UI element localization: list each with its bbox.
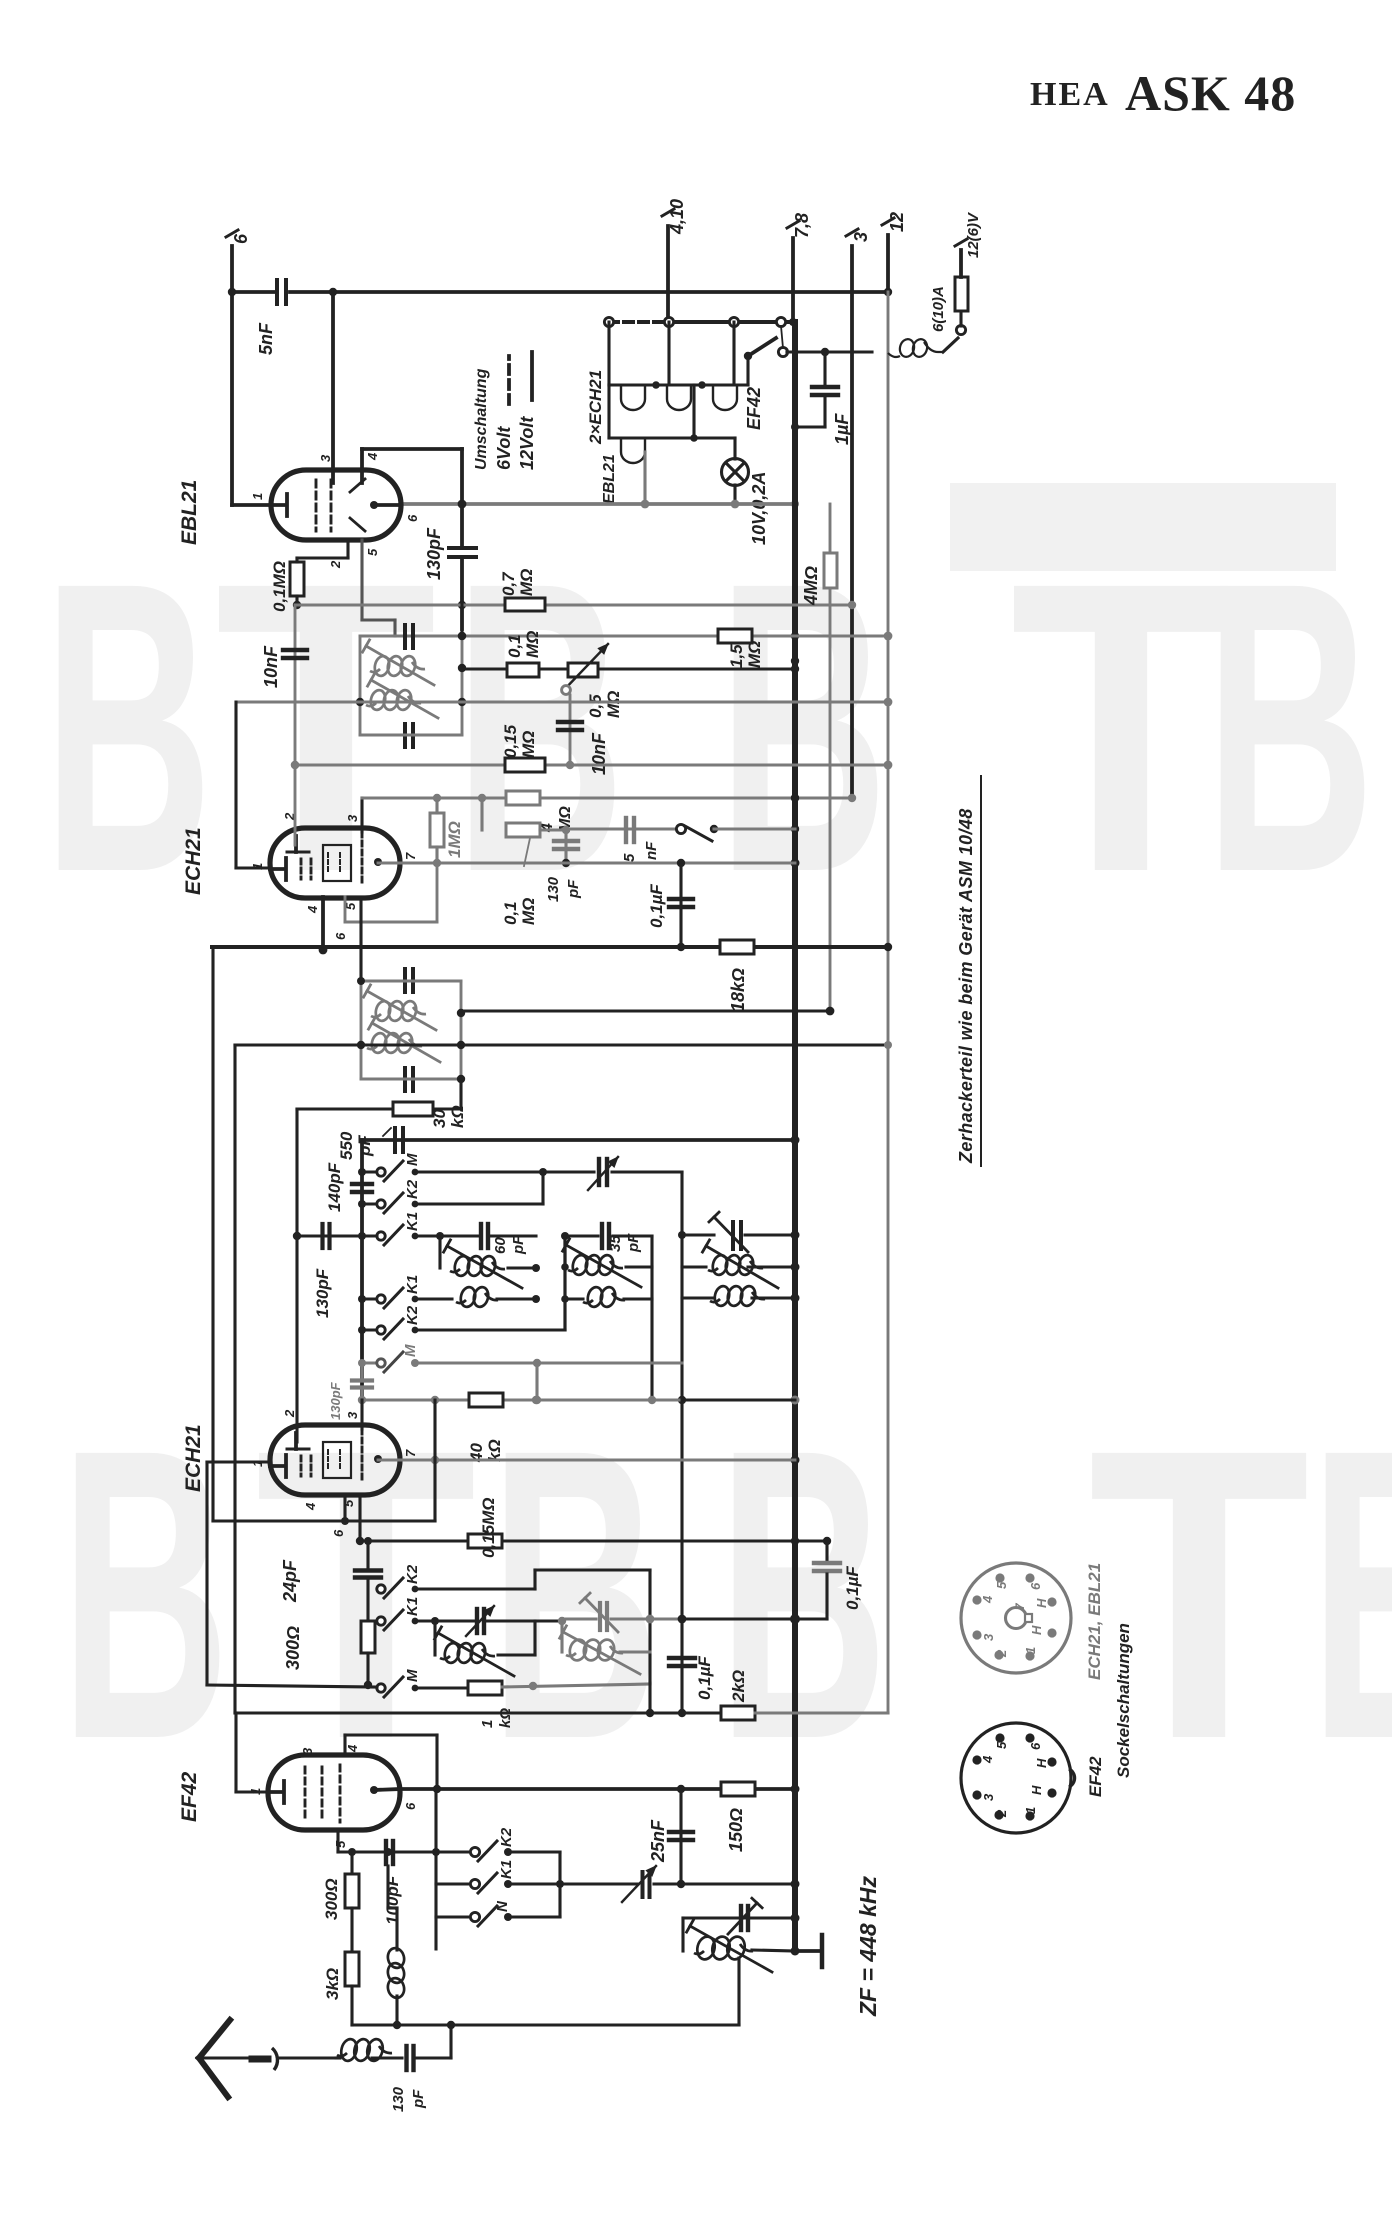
svg-text:B: B: [1310, 1365, 1392, 1826]
wire ECH21b pin1: [207, 1462, 270, 1685]
contact Nd: [436, 1900, 512, 1926]
svg-text:B: B: [718, 1365, 888, 1826]
svg-text:130: 130: [545, 876, 562, 902]
switch agc: [676, 824, 795, 841]
resistor 0,1MOhm: [290, 558, 304, 609]
wire grid leak y1400: [358, 1396, 795, 1404]
resistor 40kOhm: [467, 1393, 504, 1463]
wire 1k to coilbox gray: [502, 1682, 650, 1690]
svg-text:0,15: 0,15: [501, 724, 520, 758]
svg-text:4: 4: [345, 1744, 360, 1753]
wire Mb row gray: [415, 1359, 682, 1400]
svg-text:K1: K1: [404, 1597, 421, 1616]
svg-text:H: H: [1029, 1785, 1044, 1795]
label pin5 EBL21: [365, 548, 380, 556]
wire screen bus y1713: [236, 1683, 755, 1717]
svg-text:5: 5: [341, 1499, 356, 1507]
wire screen line y636: [360, 632, 892, 641]
wire EBL21 pin1: [232, 292, 271, 505]
resistor 0,15MOhm: [501, 724, 545, 772]
label 0,1MOhm: [270, 561, 289, 612]
wire ECH21a pin3: [360, 798, 363, 886]
svg-text:4: 4: [305, 905, 320, 914]
svg-text:H: H: [1034, 1758, 1049, 1768]
label 25nF: [648, 1819, 668, 1863]
svg-text:Zerhackerteil wie beim Gerät A: Zerhackerteil wie beim Gerät ASM 10/48: [956, 808, 976, 1164]
contact K2c: [377, 1564, 421, 1598]
wire 2k to 888 gray: [755, 1711, 888, 1714]
label 12(6)V: [965, 211, 982, 258]
svg-text:EF42: EF42: [178, 1771, 201, 1822]
coil osc K1: [440, 1236, 540, 1288]
label 6(10)A: [930, 286, 947, 332]
svg-text:1: 1: [250, 863, 265, 870]
wire cathode2 y1541: [360, 1537, 831, 1545]
svg-text:3: 3: [345, 1411, 360, 1419]
capacitor 130pF osc: [293, 1224, 377, 1248]
wire contacts right loop: [508, 1852, 564, 1917]
wire ECH21a pin6 to IFT2: [359, 897, 362, 981]
wire ECH21a pin5 box: [345, 863, 437, 922]
svg-text:6: 6: [331, 1529, 346, 1537]
wire K1c cont: [487, 1617, 566, 1625]
contact K2 osc: [362, 1179, 421, 1213]
svg-text:7: 7: [403, 1449, 418, 1457]
resistor 4MOhm row: [506, 791, 574, 833]
tube ECH21 first: [270, 828, 400, 898]
contact K2d: [436, 1827, 515, 1861]
IF transformer 2: [357, 969, 465, 1109]
wire k2 mid left verticals: [561, 1236, 569, 1330]
label pin1 EBL21: [250, 493, 265, 500]
svg-text:6: 6: [403, 1802, 418, 1810]
capacitor 10nF: [283, 605, 307, 769]
svg-text:550: 550: [337, 1131, 356, 1160]
svg-text:ECH21, EBL21: ECH21, EBL21: [1085, 1563, 1104, 1680]
label 100pF: [383, 1875, 402, 1925]
label EF42 heater: [744, 387, 764, 430]
svg-text:10nF: 10nF: [261, 645, 281, 688]
wire osc anode y1011: [461, 1009, 830, 1012]
resistor 3kOhm: [345, 1952, 397, 2025]
svg-text:pF: pF: [355, 1135, 374, 1157]
svg-text:0,5: 0,5: [586, 694, 605, 718]
wire EBL21 pin4 loop: [362, 449, 466, 546]
svg-text:100pF: 100pF: [383, 1875, 402, 1925]
svg-text:K2: K2: [404, 1179, 421, 1199]
svg-text:0,7: 0,7: [499, 571, 518, 596]
label ECH21 first: [182, 827, 205, 895]
svg-text:B: B: [490, 1365, 660, 1826]
wire M row2 to 682: [612, 1172, 686, 1619]
svg-text:1: 1: [250, 493, 265, 500]
svg-text:6: 6: [405, 514, 420, 522]
wire EBL21 pin3: [331, 292, 335, 483]
svg-text:kΩ: kΩ: [497, 1708, 514, 1728]
label 300Ohm: [283, 1626, 303, 1670]
wire ECH21a pin4: [319, 897, 328, 954]
label ZF: [855, 1876, 881, 2017]
svg-text:K2: K2: [404, 1564, 421, 1584]
terminal 6: [226, 230, 251, 292]
label 24pF: [280, 1559, 300, 1603]
label 550pF: [337, 1128, 391, 1160]
svg-text:K1: K1: [404, 1275, 421, 1294]
svg-text:130pF: 130pF: [424, 527, 444, 580]
capacitor 550pF: [395, 1128, 403, 1152]
svg-text:M: M: [404, 1153, 421, 1166]
terminal 4,10: [662, 199, 687, 322]
svg-text:2: 2: [328, 560, 343, 569]
title HEA ASK 48: [1030, 65, 1296, 121]
resistor 2kOhm: [721, 1670, 755, 1720]
capacitor 24pF: [355, 1541, 381, 1621]
svg-text:MΩ: MΩ: [519, 898, 538, 925]
svg-text:0,1MΩ: 0,1MΩ: [270, 561, 289, 612]
wire K1c row: [415, 1617, 474, 1625]
svg-text:M: M: [402, 1344, 419, 1357]
svg-text:ECH21: ECH21: [182, 827, 205, 895]
resistor 18kOhm: [720, 940, 754, 1012]
wire ECH21b pin3: [360, 1400, 363, 1483]
wire K2b row: [415, 1232, 569, 1330]
svg-text:30: 30: [430, 1109, 449, 1128]
tube EF42: [268, 1755, 400, 1830]
coil osc2 1: [435, 1621, 535, 1676]
coil osc K2 mid: [535, 1236, 652, 1287]
svg-text:0,1µF: 0,1µF: [695, 1656, 714, 1700]
svg-text:150Ω: 150Ω: [726, 1808, 746, 1852]
svg-text:4: 4: [303, 1502, 318, 1511]
svg-text:5nF: 5nF: [256, 322, 276, 355]
label 130pF ant: [390, 2086, 427, 2112]
label 130pF anode: [424, 527, 444, 580]
svg-text:1: 1: [479, 1720, 496, 1728]
label pin6 EBL21: [405, 514, 420, 522]
wire IFT3 top: [683, 1918, 795, 1951]
svg-text:2: 2: [282, 1409, 297, 1418]
wire grid line y605: [297, 601, 856, 609]
capacitor 0,1uF rail: [795, 1541, 840, 1619]
contact Mb osc gray: [362, 1344, 419, 1372]
contact K1c: [377, 1597, 421, 1630]
svg-text:3: 3: [318, 454, 333, 462]
coil ant 2: [682, 1285, 795, 1308]
svg-text:N: N: [494, 1900, 511, 1912]
svg-text:12: 12: [887, 212, 907, 232]
label 130pF osc: [313, 1268, 332, 1318]
capacitor 5nF: [256, 280, 286, 355]
capacitor 140pF: [352, 1184, 372, 1192]
svg-text:B: B: [455, 498, 625, 959]
wire EF42 contacts spine: [434, 1789, 437, 1949]
label EBL21 heater: [601, 454, 618, 504]
contact K1b osc: [362, 1275, 421, 1308]
label socket2: [1086, 1756, 1105, 1797]
terminal 3: [846, 229, 871, 798]
svg-text:4MΩ: 4MΩ: [801, 566, 821, 606]
trimmer K1c: [466, 1606, 494, 1636]
wire 35pF to 652: [613, 1236, 652, 1400]
capacitor 60pF: [481, 1224, 527, 1255]
svg-text:ECH21: ECH21: [182, 1424, 205, 1492]
svg-text:6: 6: [231, 233, 251, 244]
svg-text:3: 3: [345, 814, 360, 822]
label 0,1uF rail: [843, 1566, 862, 1610]
svg-text:0,1: 0,1: [505, 634, 524, 658]
svg-text:0,1: 0,1: [501, 901, 520, 925]
capacitor 1uF: [791, 356, 838, 431]
svg-text:1µF: 1µF: [832, 413, 852, 445]
svg-text:K2: K2: [404, 1305, 421, 1325]
switch battery: [744, 326, 788, 360]
svg-text:ZF = 448 kHz: ZF = 448 kHz: [855, 1876, 881, 2017]
svg-text:1MΩ: 1MΩ: [445, 821, 464, 858]
wire top bus: [228, 288, 892, 296]
label 140pF: [325, 1162, 344, 1212]
trimmer M: [588, 1157, 618, 1190]
svg-text:4,10: 4,10: [667, 199, 687, 235]
capacitor 100pF: [386, 1841, 393, 1864]
svg-text:5: 5: [333, 1840, 348, 1848]
svg-text:HEA: HEA: [1030, 76, 1110, 113]
resistor 150Ohm: [721, 1782, 755, 1852]
svg-text:3: 3: [851, 232, 871, 242]
svg-text:pF: pF: [410, 2089, 427, 2109]
capacitor 5nF 2: [626, 818, 634, 842]
svg-text:EBL21: EBL21: [601, 454, 618, 504]
svg-text:130pF: 130pF: [313, 1268, 332, 1318]
capacitor 130pF agc: [554, 826, 578, 867]
capacitor 35pF: [602, 1224, 642, 1253]
watermark: [43, 483, 1392, 1825]
svg-text:24pF: 24pF: [280, 1559, 300, 1603]
antenna: [199, 2020, 336, 2097]
svg-text:2kΩ: 2kΩ: [729, 1670, 748, 1703]
contact K2b osc: [362, 1305, 421, 1339]
trimmer IFT3: [728, 1898, 762, 1934]
wire ECH21b pin7: [378, 1456, 795, 1464]
heater chain 2xECH21 + EF42: [609, 322, 748, 410]
label ECH21 second: [182, 1424, 205, 1492]
capacitor 0,1uF 2: [669, 1615, 695, 1718]
resistor 300Ohm 2: [345, 1852, 359, 1952]
svg-text:7: 7: [403, 852, 418, 860]
wire ECH21b pin6: [356, 1495, 364, 1545]
svg-text:4: 4: [365, 452, 380, 461]
capacitor 130pF anode: [449, 548, 476, 629]
svg-text:6: 6: [333, 932, 348, 940]
wire heater return gray: [401, 500, 799, 509]
svg-text:6: 6: [1028, 1742, 1043, 1750]
trimmer padder big: [678, 1212, 795, 1252]
svg-text:2: 2: [994, 1809, 1009, 1818]
resistor 300Ohm: [361, 1621, 375, 1689]
svg-text:2×ECH21: 2×ECH21: [586, 370, 605, 445]
resistor 0,1MOhm screen: [505, 631, 542, 677]
svg-text:EF42: EF42: [744, 387, 764, 430]
resistor 0,15MOhm 2: [468, 1497, 502, 1558]
svg-text:18kΩ: 18kΩ: [728, 968, 748, 1012]
svg-text:H: H: [1029, 1625, 1044, 1635]
label pin3 EBL21: [318, 454, 333, 462]
wire K2 row: [415, 1168, 547, 1204]
label 10V,0,2A: [749, 472, 769, 545]
svg-text:6: 6: [1028, 1582, 1043, 1590]
svg-text:12Volt: 12Volt: [517, 416, 537, 470]
coil osc K2b mid: [565, 1286, 652, 1309]
variable capacitor tuning: [560, 1866, 795, 1902]
node circles heater line: [604, 317, 797, 326]
wire pot line y669: [462, 665, 799, 673]
label 10nF: [261, 645, 281, 688]
label 130pF agc: [545, 876, 582, 902]
wire diode line y702: [236, 698, 892, 707]
contact M osc: [362, 1153, 421, 1181]
label 300Ohm 2: [322, 1878, 341, 1920]
svg-text:EBL21: EBL21: [178, 480, 201, 545]
svg-text:5: 5: [621, 853, 638, 862]
label 3kOhm: [323, 1968, 342, 2000]
choke antenna: [386, 1866, 406, 2029]
socket EF42: [961, 1723, 1075, 1833]
wire ECH21b pin1 riser left: [235, 1045, 236, 1713]
tube ECH21 second: [270, 1425, 400, 1495]
label EF42: [178, 1771, 201, 1822]
label 5nF2: [621, 841, 660, 862]
wire ECH21a pin1 riser: [236, 702, 270, 868]
svg-text:MΩ: MΩ: [745, 641, 764, 668]
label pin4 EBL21: [365, 452, 380, 461]
svg-text:MΩ: MΩ: [517, 569, 536, 596]
svg-text:10V,0,2A: 10V,0,2A: [749, 472, 769, 545]
capacitor 0,1uF: [669, 859, 693, 951]
svg-text:3: 3: [300, 1747, 315, 1755]
svg-text:3kΩ: 3kΩ: [323, 1968, 342, 2000]
contact K1 osc: [362, 1212, 421, 1245]
svg-text:MΩ: MΩ: [604, 691, 623, 718]
svg-text:300Ω: 300Ω: [283, 1626, 303, 1670]
socket ECH21 EBL21: [961, 1563, 1071, 1673]
wire ECH21b pin2: [295, 1109, 298, 1442]
svg-text:3: 3: [981, 1633, 996, 1641]
wire IFT3 tap: [397, 1958, 739, 2029]
wire K1 to 536: [491, 1234, 536, 1237]
wire cathode row y1686: [207, 1685, 468, 1688]
svg-text:5: 5: [994, 1741, 1009, 1749]
svg-text:4: 4: [980, 1755, 995, 1764]
svg-text:25nF: 25nF: [648, 1819, 668, 1863]
resistor 0,1MOhm row gray: [482, 798, 566, 925]
resistor 1kOhm: [468, 1681, 514, 1728]
wire to fuse: [787, 348, 872, 356]
IF transformer 1: [356, 558, 466, 747]
label 0,1uF: [647, 884, 666, 928]
lamp 10V 0,2A: [722, 438, 749, 504]
contact K1d: [436, 1860, 515, 1893]
svg-text:130pF: 130pF: [328, 1381, 343, 1420]
svg-text:4: 4: [980, 1595, 995, 1604]
svg-text:1: 1: [1023, 1647, 1038, 1654]
capacitor 130pF 2 gray: [352, 1363, 372, 1400]
wire M row: [377, 1171, 594, 1173]
svg-text:MΩ: MΩ: [519, 731, 538, 758]
svg-text:ASK 48: ASK 48: [1125, 65, 1296, 121]
svg-text:K2: K2: [498, 1827, 515, 1847]
label Sockelschaltungen: [1114, 1623, 1133, 1778]
svg-text:1,5: 1,5: [727, 644, 746, 668]
trimmer 2 gray: [566, 1593, 795, 1632]
svg-text:6Volt: 6Volt: [494, 426, 514, 470]
svg-text:0,15MΩ: 0,15MΩ: [479, 1497, 498, 1558]
svg-text:MΩ: MΩ: [523, 631, 542, 658]
terminal 12: [882, 212, 907, 1713]
capacitor 130pF ant: [407, 2025, 452, 2070]
svg-text:Sockelschaltungen: Sockelschaltungen: [1114, 1623, 1133, 1778]
resistor 30kOhm: [297, 1079, 467, 1128]
svg-text:nF: nF: [643, 841, 660, 860]
wire EF42 pin1: [236, 1713, 268, 1792]
coil osc K1b: [415, 1286, 540, 1309]
wire EBL21 pin5 gray: [362, 540, 395, 636]
wire grid2 line y798: [362, 794, 856, 802]
label pins EF42: [248, 1744, 418, 1848]
rail anode supply: [790, 322, 800, 1956]
svg-text:pF: pF: [565, 879, 582, 899]
label 1uF: [832, 413, 852, 445]
label 2xECH21: [586, 370, 605, 445]
wire K1 row: [415, 1232, 478, 1240]
label pins ECH21b: [250, 1409, 418, 1537]
wire EBL21 pin2: [297, 540, 348, 558]
svg-text:0,1µF: 0,1µF: [647, 884, 666, 928]
svg-text:K1: K1: [404, 1212, 421, 1231]
legend Umschaltung: [473, 352, 537, 470]
coil IFT3: [687, 1920, 795, 1972]
resistor 1,5MOhm: [718, 629, 764, 668]
label 130pF 2: [328, 1381, 343, 1420]
wire EF42 pin4 loop: [345, 1735, 437, 1789]
ground: [795, 1935, 822, 1967]
wire ECH21b pin5 box: [213, 947, 435, 1525]
svg-text:pF: pF: [510, 1235, 527, 1255]
heater EBL21 row: [609, 385, 735, 504]
coil antenna: [336, 2038, 402, 2063]
svg-text:12(6)V: 12(6)V: [965, 211, 982, 258]
svg-text:5: 5: [365, 548, 380, 556]
terminal 7,8: [787, 213, 812, 322]
svg-text:1: 1: [1023, 1807, 1038, 1814]
label 0,1uF 2: [695, 1656, 714, 1700]
wire grid3 line y1045: [235, 1041, 892, 1049]
label socket1: [1085, 1563, 1104, 1680]
resistor 4MOhm rail: [801, 504, 837, 1015]
svg-text:kΩ: kΩ: [448, 1105, 467, 1128]
svg-text:130: 130: [390, 2086, 407, 2112]
capacitor 10nF 2: [558, 695, 582, 769]
note Zerhackerteil: [956, 776, 981, 1166]
tube EBL21: [271, 470, 401, 540]
resistor 0,7MOhm: [499, 569, 545, 611]
wire cathode bus y947: [212, 943, 892, 951]
coil ant 1: [682, 1240, 795, 1288]
label 10nF 2: [589, 732, 609, 775]
wire AVC line y765: [295, 761, 892, 770]
potentiometer 0,5MOhm: [562, 644, 623, 718]
coil osc2 2 gray: [560, 1621, 650, 1674]
resistor 1MOhm: [430, 798, 464, 863]
wire heater 12V: [669, 320, 793, 324]
